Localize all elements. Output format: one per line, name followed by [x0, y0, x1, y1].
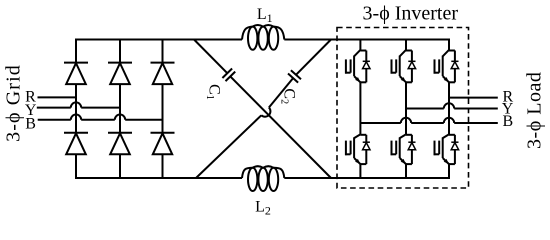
diode D1 top of leg 1 [64, 62, 88, 64]
wire phase B from grid to leg 3 jumping legs 1 and 2 [38, 119, 71, 121]
inverter leg 2 collector stub [405, 40, 407, 51]
svg-text:C1: C1 [204, 84, 223, 100]
wire diagonal bottom-left node to crossing [196, 115, 261, 178]
inductor L1 [248, 27, 257, 50]
diode D2 bottom of leg 3 [151, 132, 175, 134]
IGBT Q1 with freewheel diode top of leg 1 [354, 50, 360, 56]
inverter leg 3 midpoint wire [448, 82, 450, 135]
inverter leg 2 emitter wire to bottom rail [405, 164, 407, 178]
inverter leg 2 midpoint wire [405, 82, 407, 135]
crossing jump-over hump [261, 107, 270, 116]
IGBT Q4 with freewheel diode bottom of leg 1 [354, 135, 360, 139]
inverter leg 1 midpoint wire [359, 82, 361, 135]
svg-text:B: B [503, 113, 514, 130]
capacitor C2 plates [288, 74, 298, 83]
rectifier leg 2 lower wire [119, 154, 121, 178]
svg-text:L1: L1 [257, 6, 273, 25]
rectifier leg 3 lower wire [162, 154, 164, 178]
svg-text:3-ϕ Grid: 3-ϕ Grid [3, 64, 25, 142]
wire phase R from grid to leg 1 [38, 96, 77, 98]
rectifier leg 1 lower wire [75, 154, 77, 178]
wire diagonal capacitor C1 to bottom-right node [230, 76, 331, 178]
wire phase R from inverter leg 3 [449, 97, 498, 99]
diode D5 top of leg 3 [151, 62, 175, 64]
svg-text:3-ϕ Inverter: 3-ϕ Inverter [363, 2, 459, 24]
rectifier leg 1 upper wire [75, 40, 77, 63]
svg-text:L2: L2 [255, 198, 271, 217]
IGBT Q6 with freewheel diode bottom of leg 2 [400, 135, 406, 139]
bottom DC rail right segment [284, 177, 450, 179]
rectifier leg 3 middle wire [162, 84, 164, 133]
wire diagonal capacitor C2 to top-right node [296, 40, 331, 75]
diode D6 bottom of leg 2 [108, 132, 132, 134]
diode D4 bottom of leg 1 [64, 132, 88, 134]
wire phase B from inverter leg 1 jumping legs 2 and 3 [360, 122, 400, 124]
svg-text:3-ϕ Load: 3-ϕ Load [523, 72, 545, 149]
inverter leg 3 collector stub [448, 40, 450, 51]
IGBT Q2 with freewheel diode bottom of leg 3 [443, 135, 449, 139]
rectifier leg 3 upper wire [162, 40, 164, 63]
wire phase Y from grid to leg 2 jumping leg 1 [37, 107, 71, 109]
rectifier leg 1 middle wire [75, 84, 77, 133]
inverter leg 3 emitter wire to bottom rail [448, 164, 450, 178]
inverter leg 1 emitter wire to bottom rail [359, 164, 361, 178]
svg-text:C2: C2 [279, 88, 298, 104]
IGBT Q3 with freewheel diode top of leg 2 [400, 50, 406, 56]
3-phase inverter dashed enclosure [337, 28, 469, 189]
inductor L2 [248, 168, 257, 191]
top DC rail right segment [284, 39, 450, 41]
inverter leg 1 collector stub [359, 40, 361, 51]
rectifier leg 2 middle wire [119, 84, 121, 133]
top DC rail left segment [75, 39, 242, 41]
wire diagonal crossing to capacitor C2 [269, 78, 293, 107]
wire diagonal top-left node to capacitor C1 [194, 40, 227, 74]
bottom DC rail left segment [75, 177, 242, 179]
wire phase Y from inverter leg 2 jumping leg 3 [406, 108, 444, 110]
rectifier leg 2 upper wire [119, 40, 121, 63]
svg-text:B: B [25, 115, 36, 132]
diode D3 top of leg 2 [108, 62, 132, 64]
capacitor C1 plates [222, 69, 232, 79]
IGBT Q5 with freewheel diode top of leg 3 [443, 50, 449, 56]
